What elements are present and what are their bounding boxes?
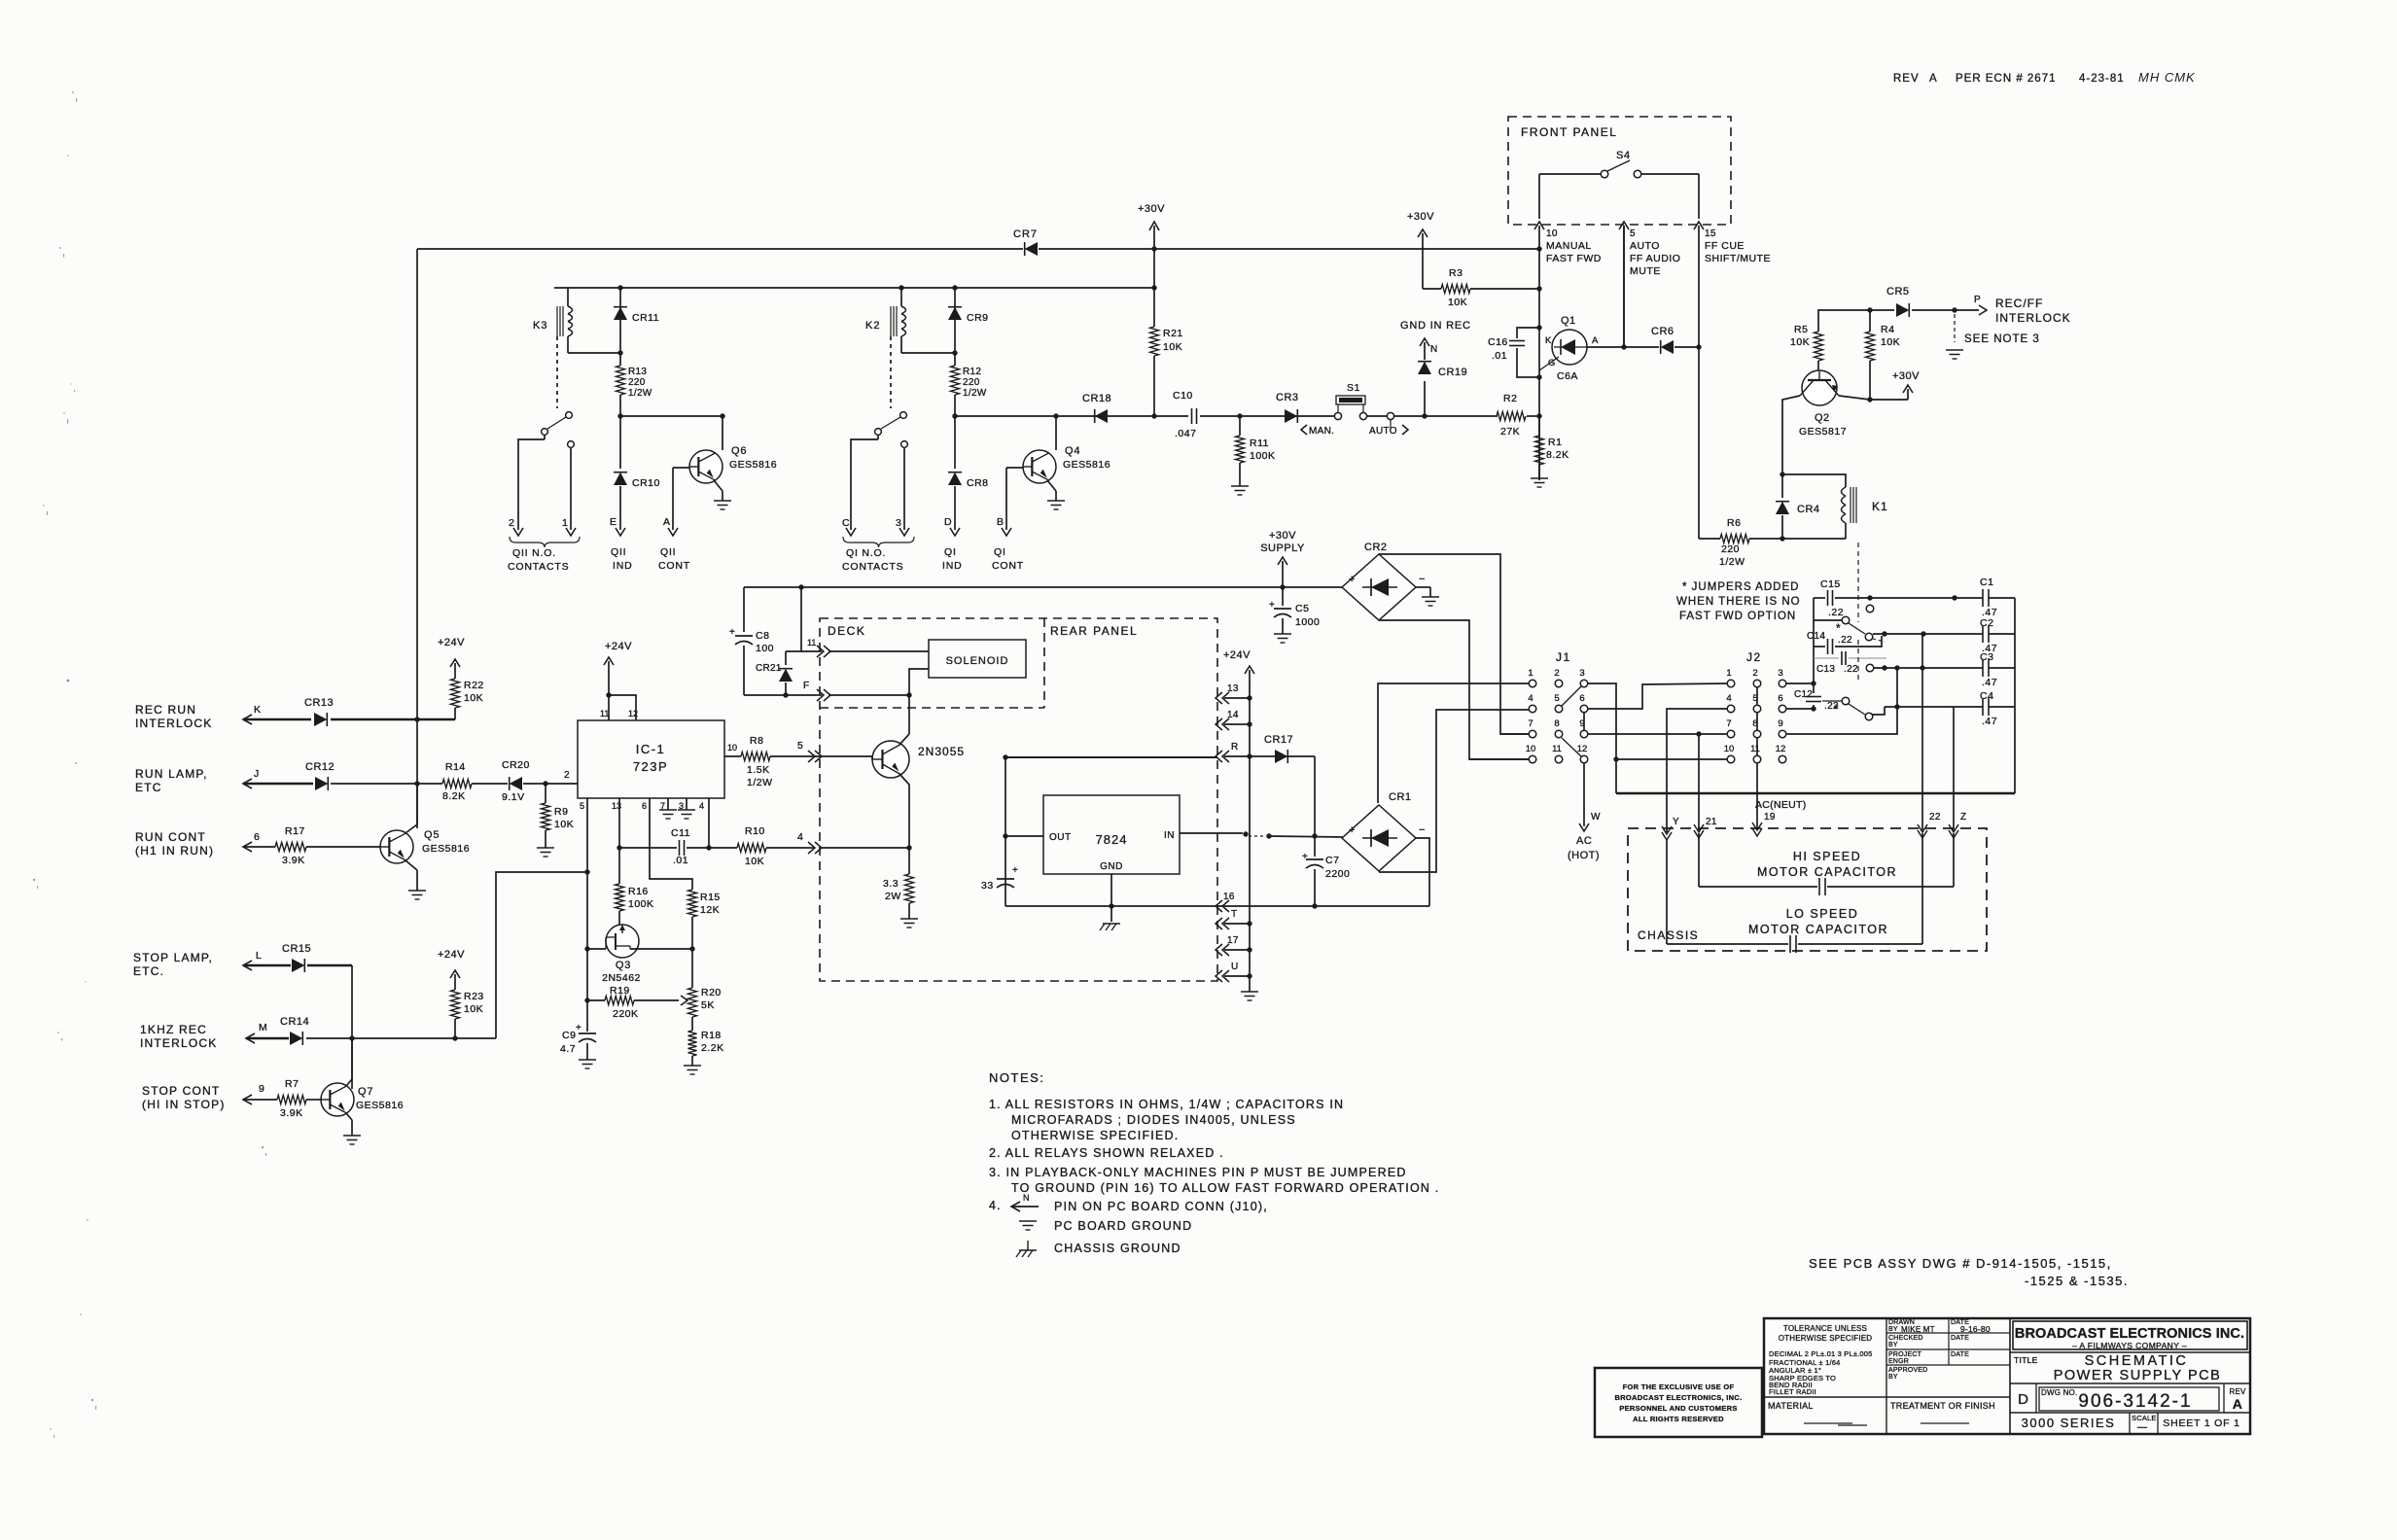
svg-text:+24V: +24V [605,641,632,652]
svg-text:R22: R22 [464,680,484,691]
svg-text:POWER SUPPLY PCB: POWER SUPPLY PCB [2054,1368,2222,1383]
svg-text:C7: C7 [1325,855,1339,866]
svg-text:SEE PCB ASSY DWG # D-914-1505,: SEE PCB ASSY DWG # D-914-1505, -1515, [1809,1256,2112,1271]
svg-text:PROJECT: PROJECT [1888,1351,1922,1358]
svg-text:QII N.O.: QII N.O. [512,547,556,559]
svg-text:GND IN REC: GND IN REC [1400,320,1471,332]
svg-text:.01: .01 [1492,350,1507,362]
svg-text:14: 14 [1227,710,1239,720]
svg-text:.47: .47 [1982,716,1997,727]
svg-text:AUTO: AUTO [1630,240,1660,252]
svg-text:Q6: Q6 [731,445,747,457]
svg-text:IND: IND [942,560,962,572]
svg-text:SCALE: SCALE [2132,1414,2157,1422]
svg-text:1. ALL RESISTORS IN OHMS, 1/4: 1. ALL RESISTORS IN OHMS, 1/4W ; CAPACIT… [989,1098,1344,1111]
svg-text:21: 21 [1706,817,1717,827]
svg-text:ETC.: ETC. [133,964,164,978]
svg-text:33: 33 [981,880,994,892]
svg-text:MATERIAL: MATERIAL [1768,1401,1814,1411]
svg-text:AC: AC [1576,835,1592,847]
svg-text:Q2: Q2 [1815,412,1830,424]
svg-text:R13: R13 [628,367,647,377]
svg-text:CR1: CR1 [1389,791,1412,803]
svg-text:+: + [576,1023,582,1033]
svg-text:TOLERANCE UNLESS: TOLERANCE UNLESS [1783,1324,1867,1333]
svg-text:10K: 10K [745,856,764,867]
svg-text:GES5817: GES5817 [1799,426,1847,437]
svg-text:220K: 220K [613,1008,639,1020]
svg-text:4.7: 4.7 [560,1043,576,1055]
svg-text:FOR THE EXCLUSIVE USE OF: FOR THE EXCLUSIVE USE OF [1623,1382,1735,1391]
svg-text:R12: R12 [963,367,981,377]
svg-text:DWG NO.: DWG NO. [2041,1388,2077,1397]
svg-text:10K: 10K [1790,336,1810,348]
svg-text:R7: R7 [285,1078,299,1090]
svg-text:+30V: +30V [1892,370,1920,382]
svg-text:C11: C11 [671,827,690,839]
svg-text:7: 7 [1528,718,1533,729]
svg-text:R18: R18 [701,1030,722,1041]
svg-text:CONT: CONT [658,560,690,572]
svg-text:C12: C12 [1794,689,1813,700]
svg-text:10: 10 [1526,744,1536,754]
svg-text:.22: .22 [1828,607,1844,618]
svg-text:+: + [1349,824,1355,836]
svg-text:CR21: CR21 [756,663,782,674]
svg-text:4: 4 [699,801,704,811]
svg-text:12: 12 [1776,744,1786,754]
svg-text:S1: S1 [1347,382,1360,394]
svg-text:2: 2 [1554,668,1559,679]
svg-text:3. IN PLAYBACK-ONLY MACHINES: 3. IN PLAYBACK-ONLY MACHINES PIN P MUST … [989,1166,1407,1179]
svg-text:ALL RIGHTS RESERVED: ALL RIGHTS RESERVED [1633,1415,1724,1423]
svg-text:CR2: CR2 [1364,542,1388,553]
svg-text:PER ECN # 2671: PER ECN # 2671 [1956,73,2057,85]
svg-text:12: 12 [628,709,638,718]
svg-text:13: 13 [1227,683,1239,694]
svg-text:R9: R9 [554,806,568,818]
svg-text:4: 4 [1726,693,1731,704]
svg-text:11: 11 [600,709,609,718]
svg-text:3.3: 3.3 [883,878,899,890]
svg-text:1000: 1000 [1295,616,1320,628]
svg-text:CR4: CR4 [1797,504,1820,515]
svg-text:S4: S4 [1616,150,1630,161]
svg-text:6: 6 [1778,693,1782,704]
svg-text:FF AUDIO: FF AUDIO [1630,253,1680,264]
svg-text:1: 1 [1726,668,1731,679]
svg-text:+24V: +24V [1223,649,1251,661]
svg-text:R5: R5 [1794,324,1808,335]
svg-text:1KHZ REC: 1KHZ REC [140,1023,207,1036]
svg-text:1/2W: 1/2W [628,388,652,399]
svg-text:2. ALL RELAYS SHOWN RELAXED .: 2. ALL RELAYS SHOWN RELAXED . [989,1146,1224,1160]
svg-text:12: 12 [1577,744,1588,754]
svg-text:Q7: Q7 [358,1086,373,1098]
svg-text:+: + [1302,852,1308,862]
svg-text:CR19: CR19 [1438,367,1467,378]
svg-text:R20: R20 [701,987,722,998]
svg-text:2N3055: 2N3055 [918,745,965,758]
svg-text:4.: 4. [989,1199,1002,1212]
svg-text:B: B [997,516,1005,528]
svg-text:FF CUE: FF CUE [1705,240,1745,252]
svg-text:OTHERWISE SPECIFIED.: OTHERWISE SPECIFIED. [1011,1129,1179,1142]
svg-text:10: 10 [727,743,737,752]
svg-text:R: R [1231,742,1239,752]
svg-text:CONTACTS: CONTACTS [842,561,903,573]
svg-text:CHASSIS GROUND: CHASSIS GROUND [1054,1242,1181,1255]
svg-text:LO SPEED: LO SPEED [1786,907,1859,921]
svg-text:Q4: Q4 [1065,445,1080,457]
svg-text:11: 11 [1750,744,1760,754]
svg-text:CR18: CR18 [1082,393,1111,404]
svg-text:FRONT PANEL: FRONT PANEL [1521,125,1617,139]
svg-text:6: 6 [642,801,647,811]
svg-text:TREATMENT OR FINISH: TREATMENT OR FINISH [1890,1401,1995,1411]
svg-text:2: 2 [509,517,514,529]
svg-text:J1: J1 [1556,650,1571,664]
svg-text:.01: .01 [673,855,688,866]
svg-text:5K: 5K [701,999,715,1011]
svg-text:WHEN THERE IS NO: WHEN THERE IS NO [1676,596,1801,608]
svg-text:2: 2 [564,770,570,781]
svg-text:QI: QI [944,546,957,558]
svg-text:+30V: +30V [1138,203,1165,215]
svg-text:5: 5 [797,740,803,752]
svg-text:100K: 100K [1250,450,1276,462]
svg-text:FAST FWD OPTION: FAST FWD OPTION [1679,611,1796,622]
svg-text:CR7: CR7 [1013,228,1038,240]
svg-text:C5: C5 [1295,603,1309,614]
svg-text:CR5: CR5 [1886,286,1910,297]
svg-text:+24V: +24V [438,637,465,648]
svg-text:−: − [1419,574,1425,585]
svg-text:HI SPEED: HI SPEED [1793,850,1861,863]
svg-text:FAST FWD: FAST FWD [1546,253,1602,264]
svg-text:D: D [944,516,952,528]
svg-text:6: 6 [254,831,260,843]
svg-text:ENGR: ENGR [1888,1358,1909,1365]
svg-text:100: 100 [756,643,774,654]
svg-text:+30V: +30V [1407,211,1434,223]
svg-text:(HI IN STOP): (HI IN STOP) [142,1098,226,1111]
svg-text:2200: 2200 [1325,868,1350,880]
svg-text:E: E [610,516,617,528]
svg-text:220: 220 [963,377,980,388]
svg-text:10K: 10K [1448,297,1467,308]
svg-text:22: 22 [1929,812,1941,822]
svg-text:+: + [729,627,735,638]
svg-text:*: * [1836,621,1841,635]
svg-text:220: 220 [628,377,646,388]
svg-text:R10: R10 [745,825,765,837]
svg-text:BY: BY [1888,1374,1898,1381]
svg-text:BY: BY [1888,1342,1898,1348]
svg-text:CR14: CR14 [280,1016,309,1028]
svg-text:C13: C13 [1816,664,1835,675]
svg-text:CR11: CR11 [632,312,659,324]
svg-text:K2: K2 [865,320,880,332]
svg-text:QII: QII [611,546,626,558]
svg-text:CHASSIS: CHASSIS [1638,928,1699,942]
svg-text:IND: IND [613,560,632,572]
svg-text:10K: 10K [1881,336,1900,348]
svg-text:6: 6 [1579,693,1584,704]
svg-text:CR15: CR15 [282,943,311,955]
svg-text:+24V: +24V [438,949,465,961]
svg-text:QI N.O.: QI N.O. [846,547,886,559]
svg-text:SEE NOTE 3: SEE NOTE 3 [1964,333,2040,345]
svg-text:CR12: CR12 [305,761,335,773]
svg-text:15: 15 [1705,228,1716,239]
svg-text:– A FILMWAYS COMPANY –: – A FILMWAYS COMPANY – [2072,1341,2187,1350]
svg-text:9.1V: 9.1V [502,791,525,803]
svg-text:RUN LAMP,: RUN LAMP, [135,767,208,781]
svg-text:GES5816: GES5816 [422,843,470,855]
svg-text:MUTE: MUTE [1630,265,1661,277]
svg-text:BROADCAST ELECTRONICS INC.: BROADCAST ELECTRONICS INC. [2015,1326,2244,1342]
svg-text:Q3: Q3 [616,960,631,971]
svg-text:CR8: CR8 [967,477,989,489]
svg-text:GND: GND [1100,861,1123,872]
svg-text:TO GROUND (PIN 16) TO ALLOW FA: TO GROUND (PIN 16) TO ALLOW FAST FORWARD… [1011,1181,1439,1195]
svg-text:A: A [1929,73,1938,85]
svg-text:5: 5 [1630,228,1636,239]
svg-text:4: 4 [797,831,803,843]
svg-text:−: − [1419,824,1425,836]
svg-text:REC/FF: REC/FF [1995,297,2043,310]
svg-text:NOTES:: NOTES: [989,1070,1044,1085]
svg-text:1: 1 [562,517,568,529]
svg-text:1/2W: 1/2W [747,777,773,788]
svg-text:11: 11 [1552,744,1562,754]
svg-text:19: 19 [1764,812,1776,822]
svg-text:C10: C10 [1173,390,1193,402]
svg-text:INTERLOCK: INTERLOCK [135,717,212,730]
svg-text:D: D [2018,1391,2029,1408]
svg-text:PERSONNEL AND CUSTOMERS: PERSONNEL AND CUSTOMERS [1619,1404,1737,1413]
svg-text:2N5462: 2N5462 [602,972,641,984]
svg-text:APPROVED: APPROVED [1888,1367,1928,1374]
svg-text:J2: J2 [1746,650,1762,664]
svg-text:R6: R6 [1727,517,1741,529]
svg-text:RUN CONT: RUN CONT [135,830,206,844]
svg-text:220: 220 [1721,543,1740,555]
svg-text:+: + [1012,865,1018,876]
svg-text:REAR PANEL: REAR PANEL [1050,624,1138,638]
svg-text:2W: 2W [885,891,901,902]
svg-text:R21: R21 [1163,328,1183,339]
svg-text:DATE: DATE [1951,1335,1969,1342]
svg-text:K: K [254,704,262,716]
svg-text:9-16-80: 9-16-80 [1960,1324,1991,1334]
svg-text:MICROFARADS ; DIODES IN4005,: MICROFARADS ; DIODES IN4005, UNLESS [1011,1113,1296,1127]
svg-text:Q1: Q1 [1561,315,1576,327]
svg-text:R4: R4 [1881,324,1894,335]
svg-text:K: K [1545,335,1552,346]
svg-text:C6A: C6A [1557,370,1578,382]
svg-text:C16: C16 [1488,336,1508,348]
svg-text:C4: C4 [1980,690,1993,702]
svg-text:G: G [1548,358,1555,368]
svg-text:*: * [1834,702,1839,716]
svg-text:1/2W: 1/2W [1719,556,1745,568]
svg-text:GES5816: GES5816 [356,1100,404,1111]
svg-text:CONT: CONT [992,560,1024,572]
svg-text:N: N [1430,344,1438,355]
svg-text:L: L [256,950,262,962]
svg-text:.47: .47 [1982,677,1997,688]
svg-text:CR6: CR6 [1651,326,1674,337]
svg-text:10: 10 [1546,228,1558,239]
svg-text:1.5K: 1.5K [747,764,770,776]
svg-text:9: 9 [1778,718,1782,729]
svg-text:9: 9 [259,1083,264,1095]
svg-text:3: 3 [1579,668,1584,679]
svg-text:CR17: CR17 [1264,734,1293,746]
svg-text:11: 11 [807,638,816,647]
svg-text:BROADCAST ELECTRONICS, INC.: BROADCAST ELECTRONICS, INC. [1614,1393,1742,1402]
svg-text:DECIMAL 2 PL±.01 3 PL±.005: DECIMAL 2 PL±.01 3 PL±.005 [1769,1349,1873,1358]
svg-text:BY: BY [1888,1326,1898,1333]
svg-text:10K: 10K [554,819,574,830]
svg-text:7: 7 [1726,718,1731,729]
svg-text:GES5816: GES5816 [729,459,777,471]
svg-text:K3: K3 [533,320,547,332]
svg-text:REV: REV [1893,73,1920,85]
svg-text:C15: C15 [1820,578,1841,590]
svg-text:2: 2 [1752,668,1757,679]
svg-text:TITLE: TITLE [2014,1355,2038,1365]
svg-text:DATE: DATE [1951,1351,1969,1358]
svg-text:CR10: CR10 [632,477,660,489]
svg-text:CR13: CR13 [304,697,334,709]
svg-text:723P: 723P [633,759,668,774]
svg-text:IC-1: IC-1 [636,742,666,756]
svg-text:CONTACTS: CONTACTS [508,561,569,573]
svg-text:Z: Z [1960,812,1966,822]
svg-text:100K: 100K [628,898,654,910]
svg-text:IN: IN [1164,830,1175,841]
svg-text:W: W [1591,812,1601,822]
svg-text:C1: C1 [1980,577,1993,588]
svg-text:3: 3 [1778,668,1782,679]
svg-text:3.9K: 3.9K [282,855,305,866]
svg-text:CR9: CR9 [967,312,989,324]
svg-text:QII: QII [660,546,676,558]
svg-text:10K: 10K [464,692,483,704]
svg-text:J: J [254,768,260,780]
svg-text:ETC: ETC [135,781,162,794]
svg-text:K1: K1 [1872,500,1888,513]
svg-text:T: T [1231,909,1237,920]
svg-text:27K: 27K [1500,426,1520,437]
svg-text:10K: 10K [1163,341,1182,353]
svg-text:(HOT): (HOT) [1568,850,1600,861]
svg-text:STOP LAMP,: STOP LAMP, [133,951,213,964]
svg-text:SCHEMATIC: SCHEMATIC [2085,1353,2189,1369]
svg-text:+: + [1269,600,1275,611]
svg-text:MAN.: MAN. [1309,426,1334,437]
svg-text:1/2W: 1/2W [963,388,987,399]
svg-text:R17: R17 [285,825,305,837]
svg-text:+30V: +30V [1269,530,1296,542]
svg-text:OUT: OUT [1049,832,1072,843]
svg-text:STOP CONT: STOP CONT [142,1084,220,1098]
svg-text:R15: R15 [700,892,721,903]
svg-text:AUTO: AUTO [1369,426,1397,437]
svg-text:SOLENOID: SOLENOID [946,655,1009,667]
svg-text:OTHERWISE SPECIFIED: OTHERWISE SPECIFIED [1779,1334,1873,1343]
svg-text:R14: R14 [445,761,466,773]
svg-text:+: + [1349,574,1355,585]
svg-text:MH CMK: MH CMK [2138,70,2196,85]
svg-text:8.2K: 8.2K [1546,449,1569,461]
svg-text:MIKE MT: MIKE MT [1901,1325,1935,1334]
svg-text:REV: REV [2229,1387,2246,1396]
svg-text:10: 10 [1724,744,1735,754]
svg-text:MOTOR CAPACITOR: MOTOR CAPACITOR [1748,923,1888,936]
svg-text:FILLET RADII: FILLET RADII [1769,1387,1816,1396]
svg-text:C14: C14 [1807,631,1825,642]
svg-text:3.9K: 3.9K [280,1107,303,1119]
svg-text:A: A [663,516,671,528]
svg-text:.047: .047 [1175,428,1196,439]
svg-text:7824: 7824 [1096,832,1128,847]
svg-text:C8: C8 [756,630,769,642]
svg-text:C: C [842,517,850,529]
svg-text:5: 5 [580,801,584,811]
svg-text:.22: .22 [1844,664,1858,675]
svg-text:.22: .22 [1838,635,1852,646]
svg-text:DECK: DECK [828,624,865,638]
svg-text:CR20: CR20 [502,759,530,771]
svg-text:SUPPLY: SUPPLY [1260,542,1305,554]
svg-text:SHEET 1 OF 1: SHEET 1 OF 1 [2163,1417,2239,1429]
svg-text:INTERLOCK: INTERLOCK [140,1036,217,1050]
svg-text:R23: R23 [464,991,484,1002]
svg-text:8.2K: 8.2K [442,790,466,802]
svg-text:—: — [2137,1422,2147,1433]
svg-text:R8: R8 [750,735,763,747]
svg-text:INTERLOCK: INTERLOCK [1995,311,2071,325]
svg-text:A: A [2233,1396,2243,1412]
svg-text:-1525 & -1535.: -1525 & -1535. [2025,1274,2129,1288]
svg-text:M: M [259,1022,267,1033]
svg-text:SHIFT/MUTE: SHIFT/MUTE [1705,253,1771,264]
svg-text:PC BOARD GROUND: PC BOARD GROUND [1054,1219,1192,1233]
svg-text:10K: 10K [464,1003,483,1015]
svg-text:A: A [1592,335,1599,346]
svg-text:12K: 12K [700,904,720,916]
svg-text:8: 8 [1554,718,1559,729]
svg-text:Q5: Q5 [424,829,440,841]
svg-text:5: 5 [1554,693,1559,704]
svg-text:QI: QI [994,546,1006,558]
svg-text:MOTOR CAPACITOR: MOTOR CAPACITOR [1757,865,1897,879]
svg-text:R16: R16 [628,886,649,897]
svg-text:3: 3 [896,517,901,529]
svg-text:3000 SERIES: 3000 SERIES [2022,1416,2116,1430]
svg-text:* JUMPERS ADDED: * JUMPERS ADDED [1682,581,1799,593]
svg-text:U: U [1231,962,1239,972]
svg-text:R3: R3 [1449,267,1463,279]
svg-text:REC RUN: REC RUN [135,703,196,717]
svg-text:Y: Y [1673,817,1679,827]
svg-text:(H1 IN RUN): (H1 IN RUN) [135,844,214,857]
svg-text:AC(NEUT): AC(NEUT) [1755,799,1807,811]
